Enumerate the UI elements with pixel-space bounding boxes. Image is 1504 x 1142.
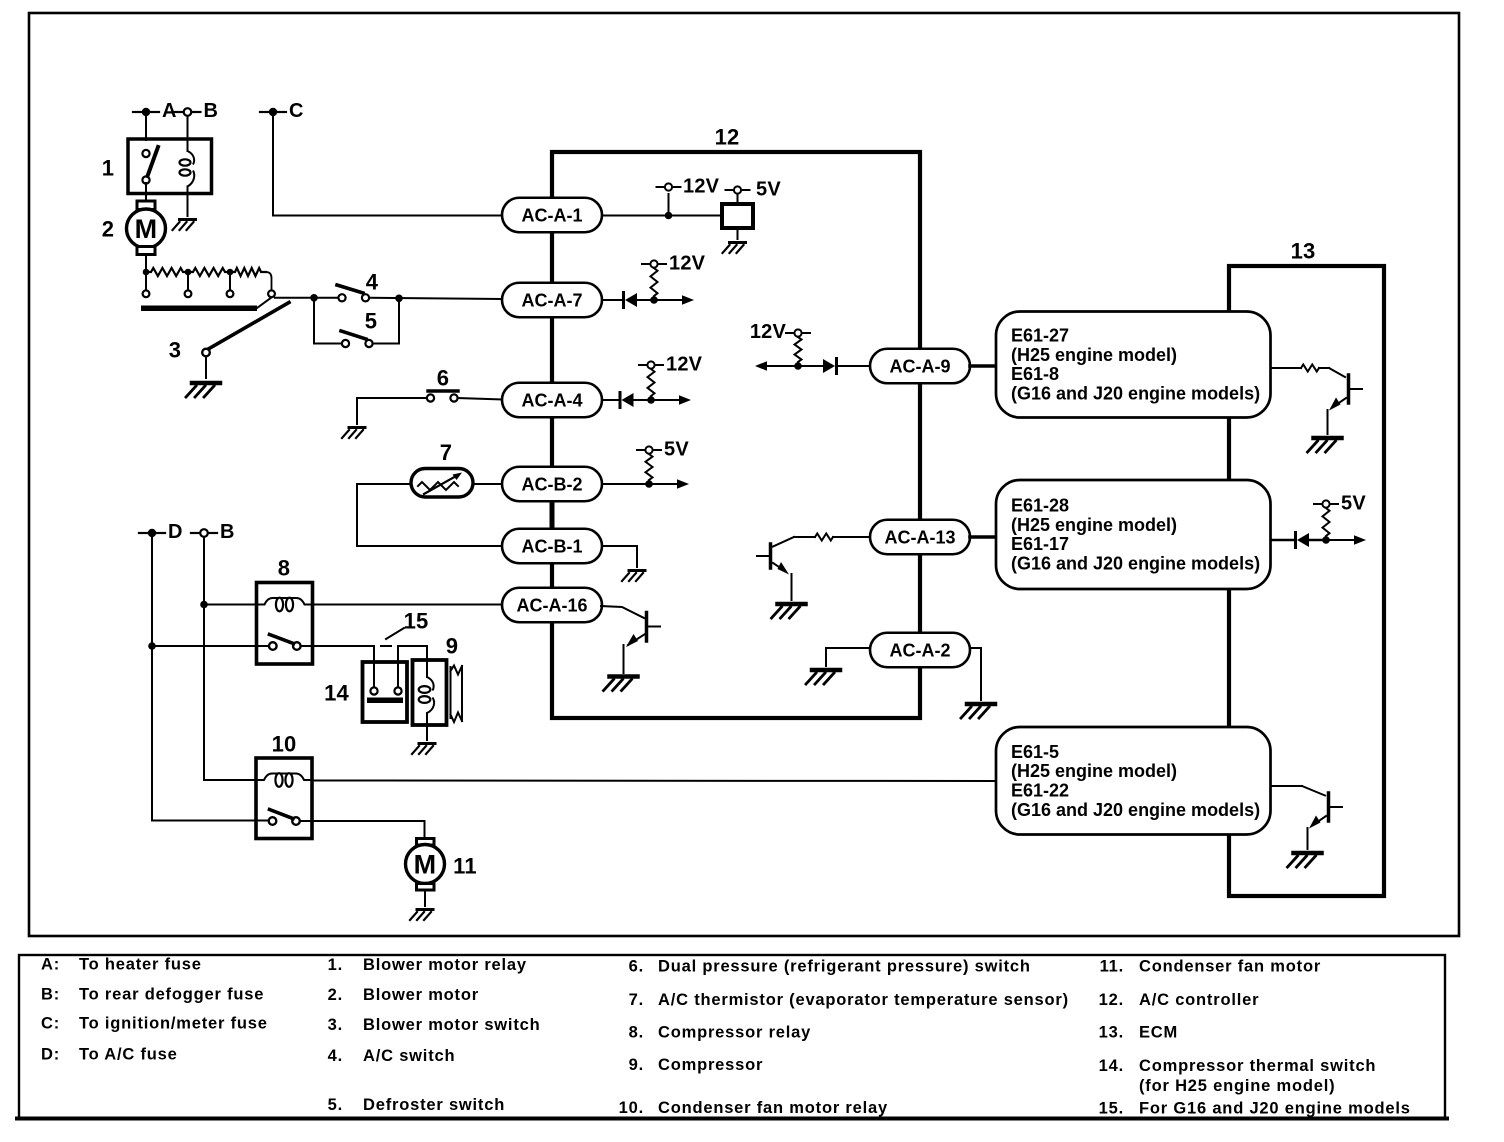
svg-text:12V: 12V: [666, 354, 703, 376]
svg-text:AC-B-1: AC-B-1: [522, 537, 583, 557]
svg-text:13: 13: [1291, 239, 1316, 264]
svg-text:Blower motor switch: Blower motor switch: [363, 1016, 540, 1034]
svg-text:E61-27: E61-27: [1011, 326, 1069, 346]
svg-text:5V: 5V: [1341, 493, 1366, 515]
svg-text:C: C: [289, 100, 304, 122]
svg-text:To A/C fuse: To A/C fuse: [79, 1045, 178, 1063]
svg-text:A/C controller: A/C controller: [1139, 991, 1259, 1009]
svg-text:11: 11: [453, 854, 477, 879]
svg-text:1: 1: [102, 156, 114, 181]
svg-text:5: 5: [365, 309, 377, 334]
svg-text:M: M: [135, 214, 158, 244]
svg-text:4.: 4.: [328, 1047, 343, 1065]
svg-text:E61-28: E61-28: [1011, 496, 1069, 516]
svg-text:12.: 12.: [1099, 991, 1124, 1009]
svg-text:4: 4: [366, 270, 379, 295]
svg-text:C:: C:: [41, 1014, 60, 1032]
svg-text:Compressor: Compressor: [658, 1056, 763, 1074]
svg-text:6: 6: [437, 366, 449, 391]
svg-text:12V: 12V: [669, 253, 706, 275]
svg-text:ECM: ECM: [1139, 1024, 1178, 1042]
svg-text:6.: 6.: [629, 958, 644, 976]
svg-text:Blower motor: Blower motor: [363, 986, 479, 1004]
svg-text:9.: 9.: [629, 1056, 644, 1074]
svg-text:AC-A-4: AC-A-4: [522, 391, 583, 411]
svg-text:10.: 10.: [619, 1099, 644, 1117]
svg-text:AC-A-7: AC-A-7: [522, 291, 583, 311]
svg-text:Defroster switch: Defroster switch: [363, 1096, 505, 1114]
svg-text:E61-8: E61-8: [1011, 364, 1059, 384]
svg-text:1.: 1.: [328, 956, 343, 974]
svg-text:B: B: [220, 521, 235, 543]
svg-text:(H25 engine model): (H25 engine model): [1011, 515, 1177, 535]
svg-text:Compressor thermal switch: Compressor thermal switch: [1139, 1057, 1376, 1075]
svg-text:(for H25 engine model): (for H25 engine model): [1139, 1077, 1335, 1095]
svg-text:(H25 engine model): (H25 engine model): [1011, 761, 1177, 781]
svg-text:8: 8: [278, 556, 290, 581]
svg-text:12: 12: [715, 125, 740, 150]
svg-text:E61-5: E61-5: [1011, 742, 1059, 762]
svg-text:14.: 14.: [1099, 1057, 1124, 1075]
svg-text:D:: D:: [41, 1045, 60, 1063]
svg-text:M: M: [414, 850, 437, 880]
svg-text:D: D: [168, 521, 183, 543]
svg-text:Condenser fan motor: Condenser fan motor: [1139, 958, 1321, 976]
svg-text:B: B: [204, 100, 219, 122]
svg-text:10: 10: [272, 732, 297, 757]
svg-text:5.: 5.: [328, 1096, 343, 1114]
svg-text:Dual pressure (refrigerant pre: Dual pressure (refrigerant pressure) swi…: [658, 958, 1031, 976]
svg-text:15.: 15.: [1099, 1100, 1124, 1118]
svg-text:(G16 and J20 engine models): (G16 and J20 engine models): [1011, 384, 1260, 404]
svg-text:AC-A-9: AC-A-9: [890, 357, 951, 377]
svg-text:A/C switch: A/C switch: [363, 1047, 455, 1065]
svg-text:7.: 7.: [629, 991, 644, 1009]
svg-text:To rear defogger fuse: To rear defogger fuse: [79, 986, 264, 1004]
svg-text:(H25 engine model): (H25 engine model): [1011, 345, 1177, 365]
svg-text:15: 15: [404, 609, 429, 634]
svg-text:7: 7: [440, 440, 452, 465]
svg-text:B:: B:: [41, 986, 60, 1004]
svg-text:3.: 3.: [328, 1016, 343, 1034]
svg-text:12V: 12V: [750, 321, 787, 343]
svg-text:9: 9: [446, 634, 458, 659]
svg-text:8.: 8.: [629, 1024, 644, 1042]
svg-text:A/C thermistor (evaporator tem: A/C thermistor (evaporator temperature s…: [658, 991, 1069, 1009]
svg-text:AC-A-2: AC-A-2: [890, 641, 951, 661]
svg-text:5V: 5V: [664, 439, 689, 461]
svg-text:AC-A-16: AC-A-16: [516, 596, 587, 616]
svg-text:5V: 5V: [756, 179, 781, 201]
svg-text:3: 3: [169, 338, 181, 363]
svg-text:To ignition/meter fuse: To ignition/meter fuse: [79, 1014, 268, 1032]
svg-text:Blower motor relay: Blower motor relay: [363, 956, 527, 974]
svg-text:Condenser fan motor relay: Condenser fan motor relay: [658, 1099, 888, 1117]
svg-text:12V: 12V: [683, 176, 720, 198]
svg-text:A:: A:: [41, 956, 60, 974]
svg-text:Compressor relay: Compressor relay: [658, 1024, 811, 1042]
svg-text:E61-22: E61-22: [1011, 780, 1069, 800]
svg-text:2: 2: [102, 217, 114, 242]
svg-text:AC-A-1: AC-A-1: [522, 206, 583, 226]
svg-text:14: 14: [324, 681, 349, 706]
svg-text:To heater fuse: To heater fuse: [79, 956, 202, 974]
svg-text:13.: 13.: [1099, 1024, 1124, 1042]
svg-text:11.: 11.: [1100, 958, 1124, 976]
svg-text:AC-A-13: AC-A-13: [884, 528, 955, 548]
svg-text:AC-B-2: AC-B-2: [522, 475, 583, 495]
svg-text:For G16 and J20 engine models: For G16 and J20 engine models: [1139, 1100, 1411, 1118]
svg-text:(G16 and J20 engine models): (G16 and J20 engine models): [1011, 554, 1260, 574]
svg-text:E61-17: E61-17: [1011, 534, 1069, 554]
svg-text:2.: 2.: [328, 986, 343, 1004]
svg-text:(G16 and J20 engine models): (G16 and J20 engine models): [1011, 800, 1260, 820]
